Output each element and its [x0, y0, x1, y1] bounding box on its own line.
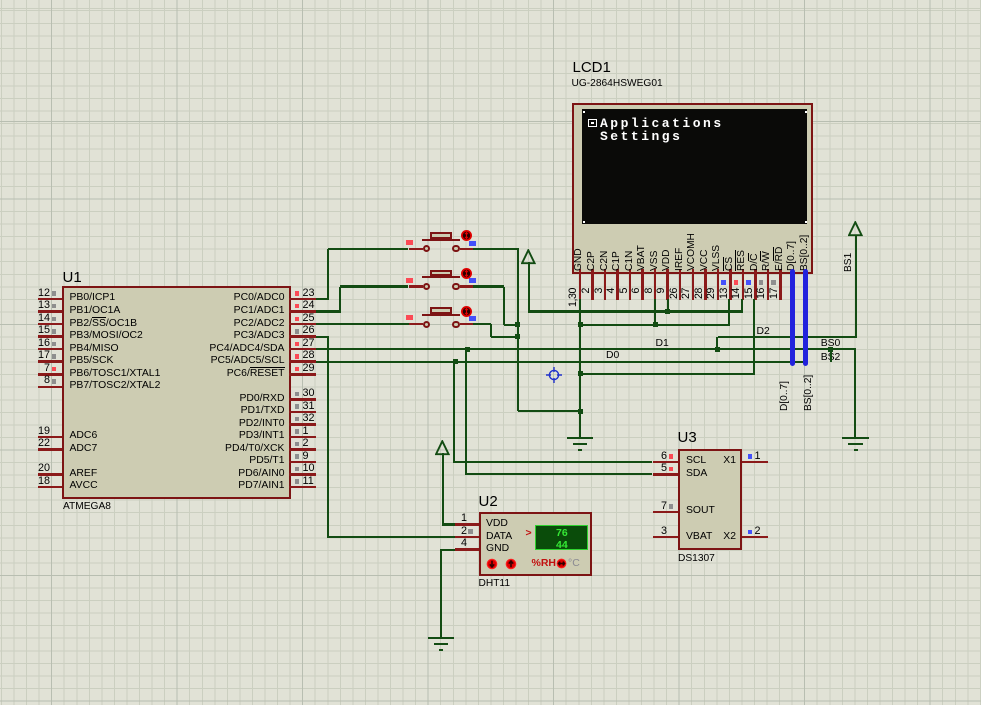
U1 pin 24 name PC1/ADC1: [70, 305, 285, 316]
U1 pin number 30: [303, 388, 315, 400]
wire DATA from U1 pin 26: [316, 336, 329, 338]
U1 pin 11 state square: [295, 479, 300, 484]
U2 pin 2 state square: [468, 529, 473, 534]
junction buttons common / button 3: [515, 334, 520, 339]
U1 pin 32 stub: [289, 423, 316, 426]
U1 pin number 1: [303, 426, 309, 438]
U2 readout value 76: [556, 528, 568, 540]
U1 pin 7 stub: [38, 373, 63, 376]
wire D0 (PC5) to bus: [316, 361, 807, 363]
LCD1 pin number 2: [581, 288, 592, 310]
wire U2 VDD: [442, 523, 455, 525]
LCD screen text line 2: [600, 130, 682, 144]
value DS1307: [678, 553, 715, 564]
LCD1 pin number 1,30: [568, 288, 579, 310]
wire D2 to bus: [718, 336, 856, 338]
LCD1 pin number 13: [719, 288, 730, 310]
U3 pin 5 state square: [669, 467, 674, 472]
button 3 left state square: [406, 315, 413, 320]
LCD1 pin 16 state square: [759, 280, 764, 285]
power arrow 5V BS1: [848, 221, 863, 237]
U1 pin number 31: [303, 401, 315, 413]
U1 pin number 15: [26, 325, 50, 337]
U1 pin 26 stub: [289, 335, 316, 338]
wire button 2 right: [473, 285, 505, 287]
LCD1 pin 4 stub: [616, 269, 619, 300]
U3 pin 1 stub: [742, 461, 769, 464]
push button 2: [409, 285, 424, 288]
junction 5V / LCD VDD: [665, 309, 670, 314]
U1 pin 25 stub: [289, 323, 316, 326]
U1 pin 16 stub: [38, 348, 63, 351]
U1 pin 2 name PD4/T0/XCK: [70, 443, 285, 454]
U2 mode button: [556, 558, 567, 569]
LCD1 pin 1,30 name GND: [574, 260, 584, 271]
LCD1 pin 26 name IREF: [675, 260, 685, 271]
U1 pin 30 state square: [295, 392, 300, 397]
U3 pin 3 stub: [653, 536, 678, 539]
ground symbol LCD net: [567, 437, 593, 439]
U2 label %RH: [532, 558, 557, 570]
OLED display LCD1 body: [572, 103, 813, 274]
U1 pin number 8: [26, 375, 50, 387]
U1 pin 1 state square: [295, 429, 300, 434]
bus net label D[0..7]: [780, 400, 790, 411]
U1 pin 1 stub: [289, 436, 316, 439]
U3 pin 6 stub: [653, 461, 678, 464]
value ATMEGA8: [63, 501, 111, 512]
U1 pin 8 name PB7/TOSC2/XTAL2: [70, 380, 161, 391]
button 2 actuator knob: [461, 268, 472, 279]
LCD1 bus pin name D[0..7]: [787, 260, 797, 271]
wire PC0 vertical: [327, 249, 329, 300]
LCD1 pin 14 name RES: [737, 260, 747, 271]
junction GND at VSS: [653, 322, 658, 327]
U3 pin number 3: [643, 526, 667, 538]
junction SDA tap: [465, 347, 470, 352]
U1 pin number 20: [26, 463, 50, 475]
LCD1 pin 6 stub: [641, 269, 644, 300]
LCD1 pin number 29: [706, 288, 717, 310]
LCD1 pin 1,30 stub: [579, 269, 582, 300]
U2 cursor arrow: [526, 528, 532, 540]
U3 pin 6 state square: [669, 454, 674, 459]
wire button 2 drop: [503, 287, 505, 325]
LCD1 pin 5 name C1N: [625, 260, 635, 271]
U2 readout display: [535, 525, 589, 551]
LCD1 pin 16 stub: [767, 269, 770, 300]
origin marker: [545, 366, 563, 384]
wire DATA vertical: [327, 337, 329, 539]
U1 pin number 23: [303, 288, 315, 300]
wire LCD VDD drop: [667, 299, 669, 313]
U1 pin 14 name PB2/SS/OC1B: [70, 318, 138, 329]
LCD1 pin 4 name C1P: [612, 260, 622, 271]
LCD1 pin 27 name VCOMH: [687, 260, 697, 271]
U1 pin 28 state square: [295, 354, 300, 359]
wire PC0 to button 1: [328, 248, 409, 250]
U3 pin 1 state square: [748, 454, 753, 459]
U1 pin 27 stub: [289, 348, 316, 351]
U3 pin 7 name SOUT: [686, 505, 715, 516]
LCD screen corner dot: [805, 221, 807, 223]
wire SDA to U3: [466, 473, 652, 475]
label LCD1: [573, 60, 611, 77]
LCD1 pin 3 stub: [604, 269, 607, 300]
wire BS1 stem: [855, 235, 857, 338]
LCD1 pin 14 stub: [742, 269, 745, 300]
U1 pin 31 name PD1/TXD: [70, 405, 285, 416]
U3 pin 2 state square: [748, 530, 753, 535]
LCD1 pin number 8: [644, 288, 655, 310]
LCD1 pin 15 stub: [754, 269, 757, 300]
U1 pin number 26: [303, 325, 315, 337]
U1 pin 28 stub: [289, 360, 316, 363]
U2 pin 1 name VDD: [486, 518, 508, 529]
U2 pin 4 stub: [455, 548, 479, 551]
wire PC1 from U1 pin 24: [316, 310, 341, 312]
U1 pin 27 state square: [295, 342, 300, 347]
LCD1 pin number 15: [744, 288, 755, 310]
wire buttons common vertical: [517, 249, 519, 411]
button 3 actuator knob: [461, 306, 472, 317]
U1 pin 10 name PD6/AIN0: [70, 468, 285, 479]
LCD1 pin 9 stub: [666, 269, 669, 300]
U1 pin 13 name PB1/OC1A: [70, 305, 121, 316]
wire PC2 U1 pin 25 to button 3: [316, 323, 409, 325]
LCD1 pin number 28: [694, 288, 705, 310]
U1 pin 26 name PC3/ADC3: [70, 330, 285, 341]
ground symbol U2: [428, 637, 454, 639]
LCD1 pin 13 stub: [729, 269, 732, 300]
U3 pin number 7: [643, 501, 667, 513]
wire SDA vertical: [465, 349, 467, 475]
wire BS2 riser: [830, 349, 832, 362]
U1 pin 23 stub: [289, 298, 316, 301]
U1 pin 24 state square: [295, 304, 300, 309]
U1 pin number 28: [303, 350, 315, 362]
U1 pin number 32: [303, 413, 315, 425]
U1 pin 26 state square: [295, 329, 300, 334]
U3 pin number 1: [755, 451, 761, 463]
U1 pin number 13: [26, 300, 50, 312]
wire SCL to U3: [454, 461, 652, 463]
U1 pin 31 stub: [289, 411, 316, 414]
LCD screen corner dot: [805, 111, 807, 113]
LCD1 bus pin D[0..7] bar: [790, 269, 796, 366]
LCD1 pin 14 state square: [734, 280, 739, 285]
wire button 3 join: [491, 336, 518, 338]
RTC U3 DS1307 body: [678, 449, 742, 551]
U1 pin 22 name ADC7: [70, 443, 98, 454]
U3 pin number 6: [643, 451, 667, 463]
U3 pin number 5: [643, 463, 667, 475]
U1 pin 30 stub: [289, 398, 316, 401]
ground symbol BS net: [842, 437, 868, 439]
wire D1 (PC4) to bus: [316, 348, 856, 350]
U1 pin 1 name PD3/INT1: [70, 430, 285, 441]
U2 pin 4 name GND: [486, 543, 509, 554]
U1 pin 15 name PB3/MOSI/OC2: [70, 330, 143, 341]
wire button 3 right: [473, 323, 491, 325]
label U1: [63, 270, 82, 287]
LCD1 pin 29 stub: [717, 269, 720, 300]
U1 pin number 12: [26, 288, 50, 300]
LCD1 pin 2 name C2P: [587, 260, 597, 271]
LCD1 pin number 9: [656, 288, 667, 310]
LCD1 pin 13 state square: [721, 280, 726, 285]
label U3: [678, 430, 697, 447]
wire GND to VSS and CS: [580, 324, 730, 326]
bus net label BS[0..2]: [804, 400, 814, 411]
LCD1 pin 13 name CS: [725, 260, 735, 271]
U1 pin number 25: [303, 313, 315, 325]
junction buttons common / button 2: [515, 322, 520, 327]
wire 5V rail: [528, 310, 743, 312]
U1 pin number 16: [26, 338, 50, 350]
net label D1: [656, 338, 669, 349]
junction GND / VSS-CS branch: [578, 322, 583, 327]
U1 pin number 29: [303, 363, 315, 375]
U1 pin 18 name AVCC: [70, 480, 98, 491]
LCD screen selector glyph: [588, 119, 597, 128]
net label BS0: [821, 338, 841, 349]
LCD1 pin 15 name D/C: [750, 260, 760, 271]
U1 pin number 14: [26, 313, 50, 325]
button 1 actuator knob: [461, 230, 472, 241]
U1 pin 16 state square: [52, 342, 57, 347]
U1 pin number 10: [303, 463, 315, 475]
LCD1 bus pin BS[0..2] bar: [803, 269, 809, 366]
U1 pin number 19: [26, 426, 50, 438]
U3 pin 7 stub: [653, 511, 678, 514]
U3 pin 5 stub: [653, 473, 678, 476]
U3 pin 1 name X1: [700, 455, 736, 466]
junction D1 / D2 tee: [715, 347, 720, 352]
U1 pin 9 name PD5/T1: [70, 455, 285, 466]
wire GND to DC: [580, 373, 755, 375]
wire D2 riser: [716, 337, 718, 351]
LCD1 pin 8 stub: [654, 269, 657, 300]
U1 pin number 7: [26, 363, 50, 375]
LCD1 pin number 3: [594, 288, 605, 310]
button 2 left state square: [406, 278, 413, 283]
junction BS0 / BS2: [828, 347, 833, 352]
junction GND / DC branch: [578, 371, 583, 376]
U2 pin number 2: [443, 526, 467, 538]
wire button 1 right: [473, 248, 519, 250]
U2 pin 2 name DATA: [486, 531, 512, 542]
LCD1 pin number 26: [669, 288, 680, 310]
U1 pin 32 name PD2/INT0: [70, 418, 285, 429]
LCD screen: [582, 109, 807, 224]
LCD1 pin number 5: [619, 288, 630, 310]
U1 pin number 27: [303, 338, 315, 350]
LCD1 pin 29 name VLSS: [712, 260, 722, 271]
LCD1 bus pin name BS[0..2]: [800, 260, 810, 271]
U1 pin 12 stub: [38, 298, 63, 301]
U1 pin 31 state square: [295, 404, 300, 409]
U1 pin number 22: [26, 438, 50, 450]
wire SCL vertical: [453, 362, 455, 463]
wire 5V stem: [528, 262, 530, 313]
U1 pin 29 state square: [295, 367, 300, 372]
LCD1 pin 2 stub: [591, 269, 594, 300]
U2 pin number 1: [443, 513, 467, 525]
U1 pin 29 name PC6/RESET: [70, 368, 285, 379]
U2 readout value 44: [556, 540, 568, 552]
U1 pin number 17: [26, 350, 50, 362]
LCD1 pin 9 name VDD: [662, 260, 672, 271]
U1 pin number 2: [303, 438, 309, 450]
LCD screen corner dot: [583, 111, 585, 113]
wire button 2 join: [504, 324, 517, 326]
U1 pin 11 stub: [289, 486, 316, 489]
U1 pin number 9: [303, 451, 309, 463]
U1 pin 17 name PB5/SCK: [70, 355, 114, 366]
LCD1 pin 28 stub: [704, 269, 707, 300]
wire DATA to U2: [328, 536, 455, 538]
LCD screen corner dot: [583, 221, 585, 223]
power arrow 5V LCD: [521, 249, 536, 265]
U2 pin 1 stub: [455, 523, 479, 526]
U1 pin 20 name AREF: [70, 468, 98, 479]
U3 pin number 2: [755, 526, 761, 538]
net label D2: [757, 326, 770, 337]
LCD1 pin 15 state square: [746, 280, 751, 285]
junction SCL tap: [453, 359, 458, 364]
wire LCD GND vertical: [579, 299, 581, 437]
U1 pin 9 stub: [289, 461, 316, 464]
LCD1 pin 6 name VBAT: [637, 260, 647, 271]
LCD1 pin 28 name VCC: [700, 260, 710, 271]
U1 pin 18 stub: [38, 486, 63, 489]
U1 pin 12 state square: [52, 291, 57, 296]
wire U2 GND drop: [440, 550, 442, 637]
U1 pin 9 state square: [295, 454, 300, 459]
button 1 left state square: [406, 240, 413, 245]
net label BS2: [821, 352, 841, 363]
U3 pin 3 name VBAT: [686, 531, 712, 542]
U1 pin 23 state square: [295, 291, 300, 296]
U1 pin 32 state square: [295, 417, 300, 422]
LCD1 pin 27 stub: [692, 269, 695, 300]
U2 label °C: [568, 558, 580, 570]
wire U2 GND: [440, 549, 455, 551]
U3 pin 2 stub: [742, 536, 769, 539]
LCD1 pin 3 name C2N: [600, 260, 610, 271]
U2 down button: [486, 558, 498, 570]
U3 pin 2 name X2: [700, 531, 736, 542]
U1 pin 24 stub: [289, 310, 316, 313]
U1 pin number 11: [303, 476, 314, 488]
U1 pin 11 name PD7/AIN1: [70, 480, 285, 491]
U3 pin 5 name SDA: [686, 468, 707, 479]
net label D0: [606, 350, 619, 361]
U1 pin 8 stub: [38, 386, 63, 389]
value UG-2864HSWEG01: [572, 78, 663, 89]
U1 pin 14 stub: [38, 323, 63, 326]
wire PC1 to button 2: [340, 285, 409, 287]
LCD1 pin 17 name E/RD: [775, 260, 785, 271]
microcontroller U1 ATMEGA8: [62, 286, 291, 499]
U1 pin 30 name PD0/RXD: [70, 393, 285, 404]
LCD1 pin 17 stub: [779, 269, 782, 300]
LCD1 pin 16 name R/W: [762, 260, 772, 271]
U1 pin 7 name PB6/TOSC1/XTAL1: [70, 368, 161, 379]
LCD1 pin number 6: [631, 288, 642, 310]
net label BS1: [844, 261, 854, 272]
LCD1 pin 26 stub: [679, 269, 682, 300]
LCD1 pin number 14: [731, 288, 742, 310]
U1 pin 16 name PB4/MISO: [70, 343, 119, 354]
U1 pin 23 name PC0/ADC0: [70, 292, 285, 303]
wire CS drop: [728, 299, 730, 326]
U2 pin 2 stub: [455, 536, 479, 539]
U1 pin 20 stub: [38, 473, 63, 476]
push button 3: [409, 323, 424, 326]
sensor U2 DHT11 body: [479, 512, 593, 576]
wire DC drop: [753, 299, 755, 375]
U1 pin 10 state square: [295, 467, 300, 472]
power arrow 5V U2: [435, 440, 450, 456]
U1 pin 19 name ADC6: [70, 430, 98, 441]
U1 pin 14 state square: [52, 317, 57, 322]
U1 pin 2 stub: [289, 448, 316, 451]
U1 pin number 24: [303, 300, 315, 312]
U1 pin 8 state square: [52, 379, 57, 384]
U1 pin number 18: [26, 476, 50, 488]
LCD1 pin number 27: [681, 288, 692, 310]
U1 pin 15 stub: [38, 335, 63, 338]
wire PC1 vertical: [339, 287, 341, 313]
U1 pin 19 stub: [38, 436, 63, 439]
wire buttons common to LCD ground net: [518, 410, 581, 412]
push button 1: [409, 248, 424, 251]
wire LCD RES riser: [741, 299, 743, 313]
LCD screen text line 1: [600, 117, 724, 131]
U1 pin 29 stub: [289, 373, 316, 376]
U1 pin 12 name PB0/ICP1: [70, 292, 116, 303]
U1 pin 7 state square: [52, 367, 57, 372]
U3 pin 7 state square: [669, 504, 674, 509]
U1 pin 10 stub: [289, 473, 316, 476]
U1 pin 13 state square: [52, 304, 57, 309]
U1 pin 22 stub: [38, 448, 63, 451]
U1 pin 25 name PC2/ADC2: [70, 318, 285, 329]
value DHT11: [479, 578, 511, 589]
wire BS0 to ground: [854, 349, 856, 437]
U1 pin 15 state square: [52, 329, 57, 334]
U2 up button: [505, 558, 517, 570]
wire PC0 from U1 pin 23: [316, 298, 329, 300]
LCD1 pin number 16: [756, 288, 767, 310]
button 1 right state square: [469, 241, 476, 246]
LCD1 pin 8 name VSS: [650, 260, 660, 271]
button 3 right state square: [469, 316, 476, 321]
U1 pin 13 stub: [38, 310, 63, 313]
LCD1 pin 5 stub: [629, 269, 632, 300]
U3 pin 6 name SCL: [686, 455, 706, 466]
junction ground net / buttons: [578, 409, 583, 414]
label U2: [479, 494, 498, 511]
U1 pin 17 stub: [38, 360, 63, 363]
U2 pin number 4: [443, 538, 467, 550]
U1 pin 27 name PC4/ADC4/SDA: [70, 343, 285, 354]
U1 pin 25 state square: [295, 317, 300, 322]
wire button 3 drop: [490, 324, 492, 337]
U1 pin 17 state square: [52, 354, 57, 359]
